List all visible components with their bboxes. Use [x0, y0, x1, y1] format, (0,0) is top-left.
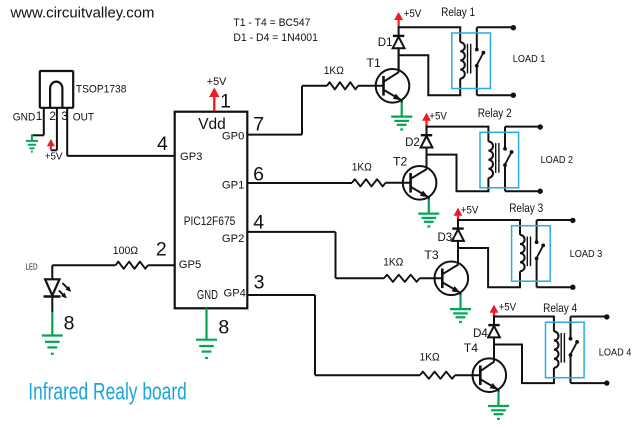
svg-text:Infrared Realy board: Infrared Realy board	[28, 378, 187, 405]
svg-text:GP4: GP4	[224, 287, 246, 299]
svg-text:PIC12F675: PIC12F675	[184, 214, 236, 228]
svg-text:100Ω: 100Ω	[113, 245, 138, 257]
svg-text:Relay 2: Relay 2	[478, 106, 512, 120]
svg-text:D4: D4	[473, 328, 488, 340]
svg-text:8: 8	[64, 313, 75, 335]
svg-text:GP0: GP0	[222, 130, 244, 142]
svg-text:T3: T3	[424, 248, 438, 262]
svg-text:+5V: +5V	[461, 205, 479, 217]
svg-text:1: 1	[36, 109, 43, 123]
svg-text:GND: GND	[13, 111, 36, 123]
svg-text:Relay 1: Relay 1	[441, 5, 475, 19]
svg-text:7: 7	[253, 113, 264, 135]
svg-text:Relay 3: Relay 3	[509, 201, 543, 215]
svg-text:4: 4	[157, 133, 168, 155]
svg-text:1: 1	[220, 91, 231, 113]
svg-text:T1 - T4 = BC547: T1 - T4 = BC547	[233, 17, 310, 29]
svg-text:+5V: +5V	[404, 8, 422, 20]
svg-text:OUT: OUT	[73, 111, 94, 123]
svg-text:+5V: +5V	[429, 111, 447, 123]
svg-text:4: 4	[253, 212, 264, 234]
svg-text:+5V: +5V	[45, 151, 63, 163]
svg-text:D1 - D4 = 1N4001: D1 - D4 = 1N4001	[233, 32, 318, 44]
svg-text:1KΩ: 1KΩ	[420, 351, 440, 363]
svg-text:TSOP1738: TSOP1738	[76, 83, 127, 95]
svg-text:LOAD 2: LOAD 2	[541, 155, 574, 166]
svg-text:GP2: GP2	[222, 233, 244, 245]
svg-text:GND: GND	[197, 287, 218, 302]
svg-text:LOAD 1: LOAD 1	[513, 54, 546, 65]
svg-text:1KΩ: 1KΩ	[383, 256, 403, 268]
svg-text:8: 8	[218, 317, 229, 339]
svg-text:1KΩ: 1KΩ	[352, 161, 372, 173]
svg-text:www.circuitvalley.com: www.circuitvalley.com	[9, 5, 154, 21]
svg-text:D2: D2	[405, 137, 420, 149]
svg-text:LOAD 4: LOAD 4	[599, 348, 632, 359]
svg-text:+5V: +5V	[207, 76, 227, 88]
svg-text:D3: D3	[438, 232, 453, 244]
svg-text:+5V: +5V	[499, 302, 517, 314]
svg-text:T2: T2	[393, 155, 407, 169]
svg-text:2: 2	[49, 109, 56, 123]
svg-text:LED: LED	[26, 261, 38, 271]
svg-text:GP3: GP3	[180, 151, 202, 163]
svg-text:GP5: GP5	[179, 259, 201, 271]
svg-text:6: 6	[253, 164, 264, 186]
svg-text:LOAD 3: LOAD 3	[570, 249, 603, 260]
svg-text:Relay 4: Relay 4	[543, 301, 577, 315]
svg-text:2: 2	[156, 238, 167, 260]
svg-text:1KΩ: 1KΩ	[324, 65, 344, 77]
svg-text:3: 3	[254, 271, 265, 293]
svg-text:GP1: GP1	[222, 180, 244, 192]
svg-text:D1: D1	[378, 37, 393, 49]
svg-text:T4: T4	[464, 341, 478, 355]
svg-text:3: 3	[61, 109, 68, 123]
svg-text:T1: T1	[367, 56, 381, 70]
